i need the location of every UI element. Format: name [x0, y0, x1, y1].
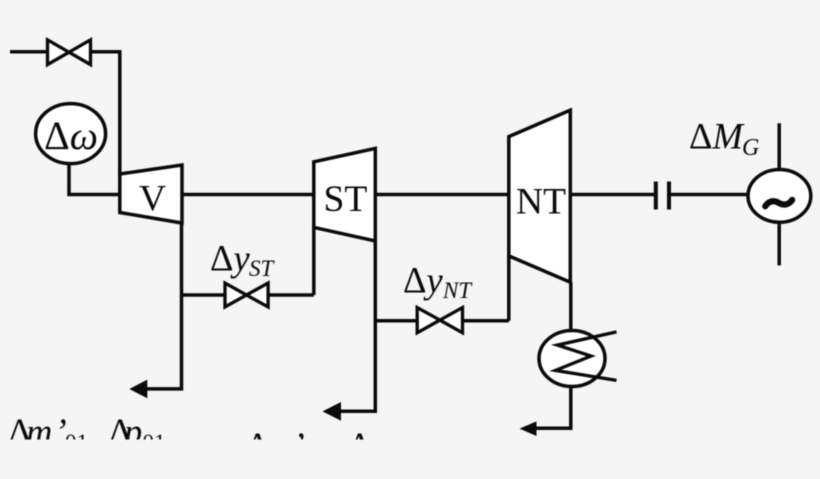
svg-text:NT: NT — [442, 278, 473, 303]
svg-text:Δy: Δy — [403, 259, 443, 300]
svg-text:V: V — [139, 178, 166, 219]
svg-text:NT: NT — [516, 181, 566, 222]
svg-text:ST: ST — [324, 179, 368, 220]
svg-text:Δω: Δω — [44, 113, 98, 158]
svg-text:G: G — [742, 135, 759, 161]
svg-text:ΔM: ΔM — [689, 116, 745, 157]
svg-text:ST: ST — [249, 256, 276, 281]
svg-text:Δy: Δy — [210, 238, 250, 279]
